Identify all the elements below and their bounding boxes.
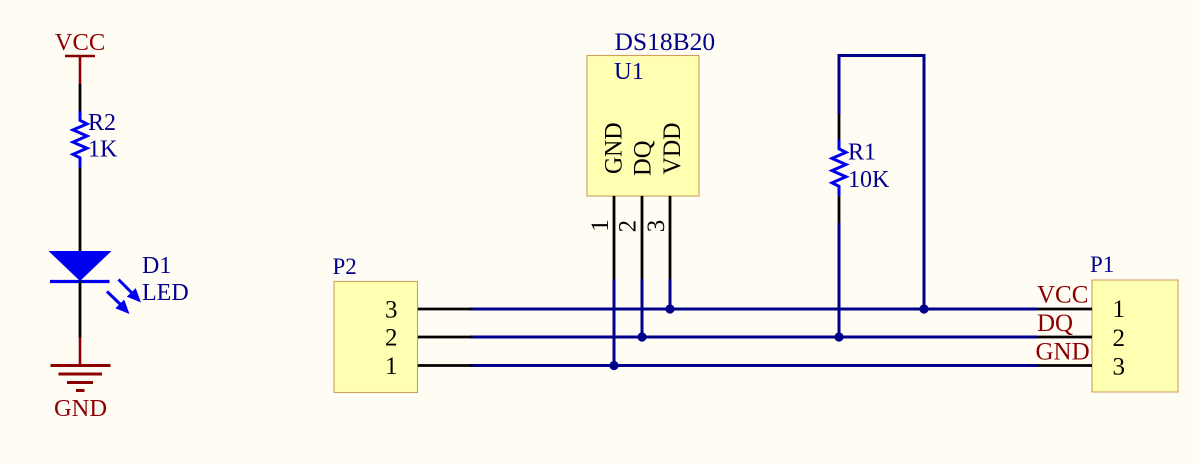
resistor R1 (832, 114, 890, 223)
junction GND/pin1 (609, 361, 618, 370)
wire R1 bottom to DQ net (838, 223, 841, 338)
svg-text:P1: P1 (1090, 252, 1114, 277)
svg-text:DQ: DQ (1037, 310, 1073, 337)
svg-text:1: 1 (1113, 296, 1126, 323)
wire U1 pin2 down to DQ net (641, 279, 644, 337)
svg-text:GND: GND (599, 123, 628, 175)
connector P2 (333, 254, 418, 393)
pin 1 of U1 (613, 196, 616, 280)
junction VCC/R1 loop (919, 304, 928, 313)
svg-text:1: 1 (587, 219, 614, 232)
svg-text:1: 1 (385, 353, 398, 380)
svg-text:VCC: VCC (55, 29, 105, 56)
resistor R2 (73, 110, 118, 168)
pin 1 of P2 (418, 364, 473, 367)
svg-text:DS18B20: DS18B20 (615, 27, 716, 56)
LED D1 (49, 251, 189, 314)
pin 3 of P1 (1037, 364, 1092, 367)
junction VCC/pin3 (665, 304, 674, 313)
svg-text:VDD: VDD (657, 123, 686, 175)
svg-text:GND: GND (1036, 339, 1090, 366)
pin 1 of P1 (1037, 308, 1092, 311)
svg-text:10K: 10K (848, 167, 890, 193)
wire U1 pin3 down to VCC net (669, 279, 672, 309)
connector P1 (1090, 252, 1178, 392)
svg-text:R2: R2 (88, 110, 116, 136)
svg-text:2: 2 (385, 325, 398, 352)
svg-text:3: 3 (1113, 354, 1126, 381)
svg-text:R1: R1 (848, 140, 876, 166)
pin 2 of P1 (1037, 336, 1092, 339)
svg-text:D1: D1 (142, 253, 171, 279)
svg-text:P2: P2 (333, 254, 357, 279)
ground GND (51, 337, 111, 422)
wire VCC to R2 (79, 84, 82, 112)
svg-text:DQ: DQ (628, 141, 657, 177)
svg-text:U1: U1 (614, 58, 644, 85)
power symbol VCC (55, 29, 105, 84)
pin 2 of P2 (418, 336, 473, 339)
svg-text:2: 2 (1113, 325, 1126, 352)
wire DQ net row (470, 336, 1037, 339)
junction DQ/pin2 (637, 332, 646, 341)
IC U1 DS18B20 (587, 27, 715, 196)
svg-text:2: 2 (615, 220, 642, 233)
wire D1 to GND (79, 281, 82, 338)
wire R1 top loop (839, 54, 924, 57)
svg-text:LED: LED (142, 280, 189, 306)
pin 2 of U1 (641, 196, 644, 280)
svg-text:GND: GND (54, 395, 107, 422)
svg-text:VCC: VCC (1037, 282, 1088, 309)
wire GND net row (470, 364, 1037, 367)
svg-text:1K: 1K (88, 137, 118, 163)
wire R2 to D1 (79, 168, 82, 251)
svg-text:3: 3 (385, 297, 398, 324)
pin 3 of P2 (418, 308, 473, 311)
svg-text:3: 3 (643, 220, 670, 233)
wire U1 pin1 down to GND net (613, 279, 616, 366)
wire VCC net row (470, 308, 1037, 311)
pin 3 of U1 (669, 196, 672, 280)
junction DQ/R1 (834, 332, 843, 341)
